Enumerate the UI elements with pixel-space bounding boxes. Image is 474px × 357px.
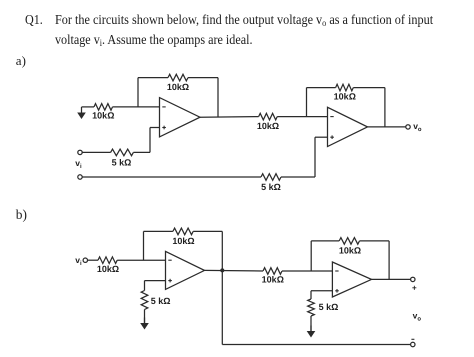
- svg-text:5 kΩ: 5 kΩ: [319, 302, 339, 312]
- svg-text:10kΩ: 10kΩ: [339, 246, 361, 256]
- svg-text:10kΩ: 10kΩ: [97, 264, 119, 274]
- svg-text:10kΩ: 10kΩ: [92, 111, 114, 121]
- svg-text:vo: vo: [413, 310, 422, 322]
- svg-text:10kΩ: 10kΩ: [334, 92, 356, 102]
- svg-text:vi: vi: [75, 255, 82, 267]
- svg-text:10kΩ: 10kΩ: [172, 236, 194, 246]
- svg-text:10kΩ: 10kΩ: [167, 82, 189, 92]
- svg-text:vi: vi: [75, 158, 82, 170]
- svg-text:5 kΩ: 5 kΩ: [151, 296, 171, 306]
- svg-text:10kΩ: 10kΩ: [262, 275, 284, 285]
- svg-text:+: +: [412, 284, 417, 293]
- svg-text:10kΩ: 10kΩ: [257, 121, 279, 131]
- svg-text:5 kΩ: 5 kΩ: [112, 158, 132, 168]
- svg-text:vo: vo: [413, 121, 422, 133]
- svg-text:5 kΩ: 5 kΩ: [261, 182, 281, 192]
